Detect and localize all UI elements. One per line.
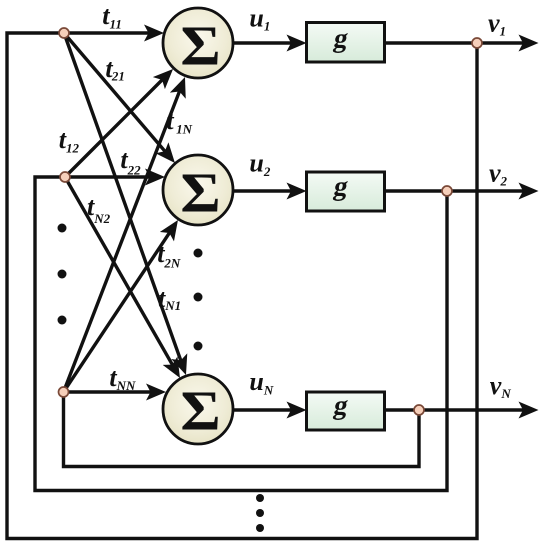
- svg-text:Σ: Σ: [180, 380, 220, 442]
- svg-text:tN2: tN2: [87, 192, 111, 226]
- svg-text:t12: t12: [59, 125, 80, 156]
- svg-text:t11: t11: [102, 1, 122, 31]
- svg-text:v1: v1: [488, 9, 506, 39]
- svg-text:u1: u1: [249, 4, 270, 34]
- svg-text:Σ: Σ: [180, 162, 220, 224]
- svg-text:tN1: tN1: [158, 284, 181, 313]
- svg-text:vN: vN: [490, 371, 512, 401]
- svg-text:v2: v2: [489, 159, 508, 189]
- svg-text:t21: t21: [105, 54, 125, 84]
- svg-text:t2N: t2N: [157, 239, 181, 270]
- svg-text:u2: u2: [249, 149, 270, 179]
- svg-text:uN: uN: [249, 367, 273, 398]
- svg-text:tNN: tNN: [109, 363, 136, 393]
- svg-text:t22: t22: [120, 145, 141, 177]
- svg-text:Σ: Σ: [180, 15, 220, 77]
- svg-text:t1N: t1N: [166, 106, 192, 136]
